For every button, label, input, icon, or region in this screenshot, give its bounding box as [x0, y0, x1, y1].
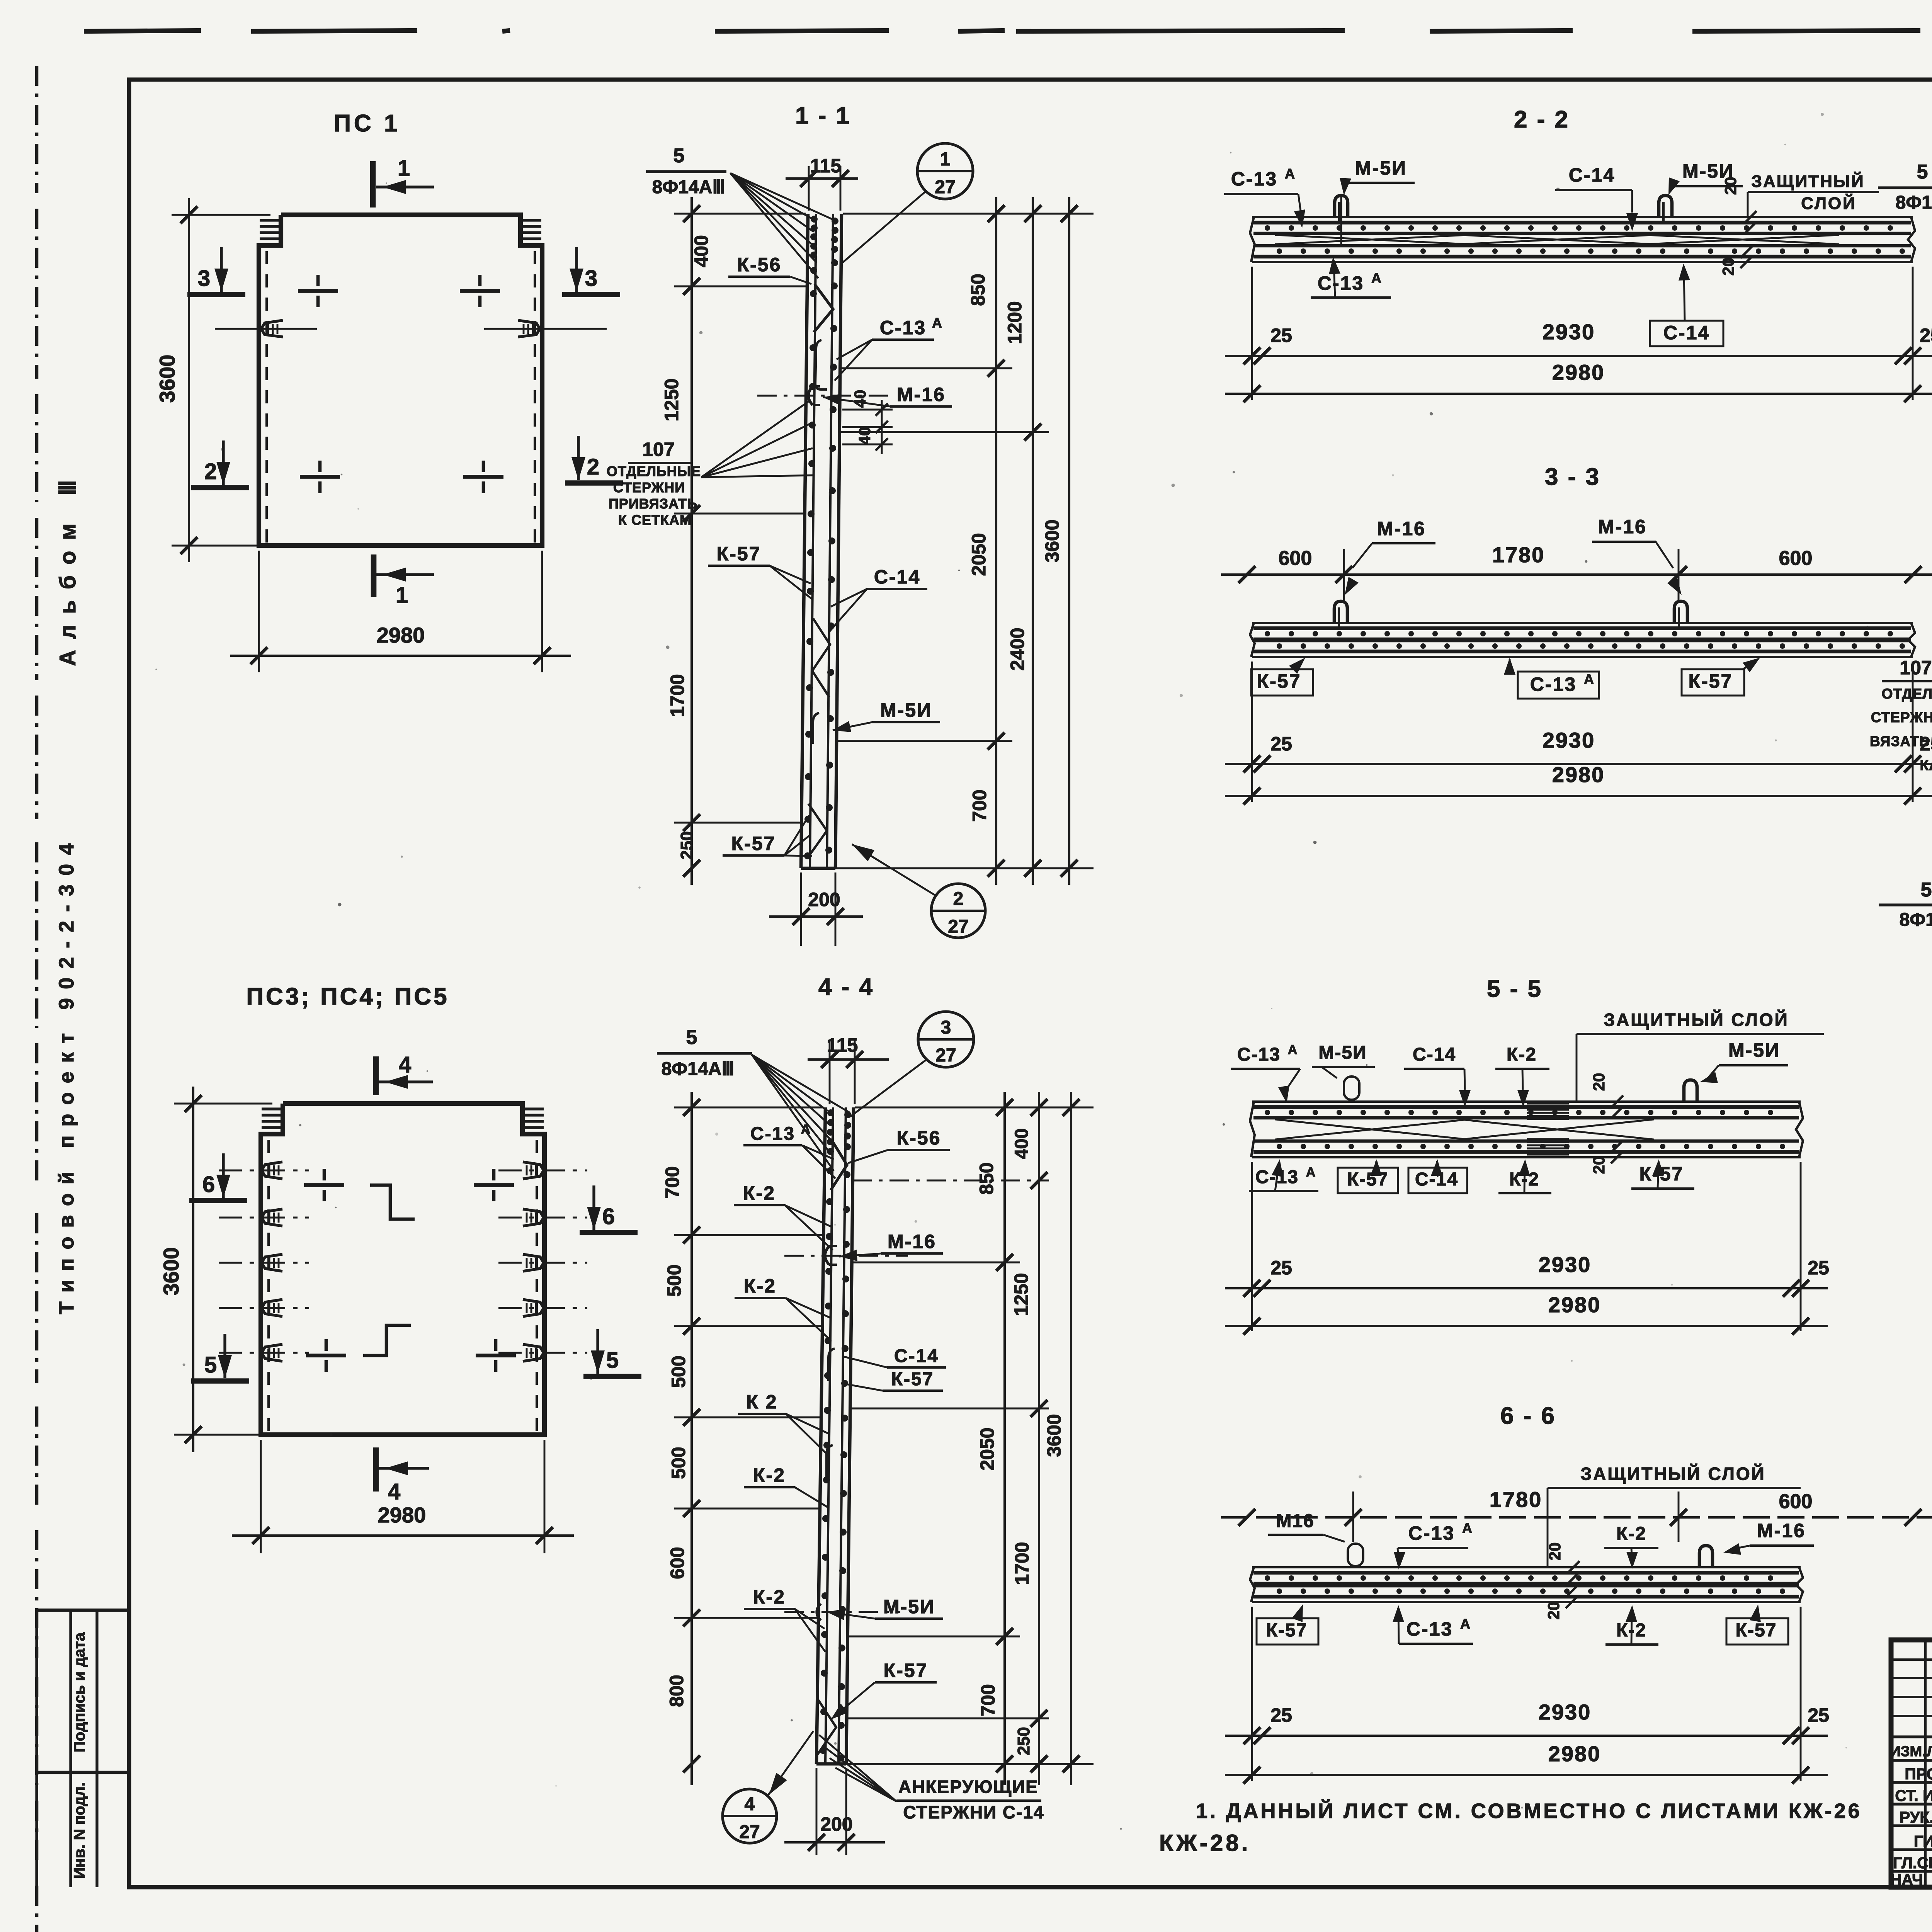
strip panel outline [1252, 216, 1913, 218]
svg-text:600: 600 [667, 1547, 688, 1579]
svg-text:250: 250 [677, 831, 696, 859]
svg-text:ГИП: ГИП [1914, 1832, 1932, 1850]
svg-text:600: 600 [1279, 547, 1312, 570]
strip right end break [1908, 217, 1915, 262]
plan PS3 section mark 4 bottom [373, 1447, 379, 1492]
svg-text:2: 2 [953, 889, 964, 909]
svg-text:600: 600 [1779, 1490, 1813, 1513]
lifting loop [1335, 196, 1348, 217]
title block personnel grid main rows [1891, 1735, 1932, 1738]
strip right end break [1908, 623, 1915, 657]
svg-text:500: 500 [668, 1355, 689, 1388]
svg-text:3: 3 [585, 266, 597, 291]
svg-text:6: 6 [202, 1172, 215, 1197]
svg-text:40: 40 [855, 427, 874, 445]
svg-text:400: 400 [690, 235, 712, 267]
plan PS1 cross marks [298, 289, 338, 293]
section 2-2 dims 25 2930 25 [1251, 267, 1253, 400]
svg-text:М-16: М-16 [888, 1231, 936, 1252]
section 4-4 K-56 truss top [831, 1140, 847, 1190]
strip rebar dots [1265, 1110, 1270, 1115]
svg-text:5: 5 [1921, 879, 1932, 901]
svg-text:С-14: С-14 [1569, 164, 1615, 186]
section 1-1 right dim chain 850 2050 700 [995, 197, 997, 885]
section 4-4 dim 115 [829, 1039, 831, 1104]
plan PS1 outline with corner notches [259, 215, 542, 546]
svg-text:К 2: К 2 [746, 1391, 777, 1413]
svg-text:2050: 2050 [968, 533, 990, 576]
plan PS1 dim 3600 [172, 214, 270, 216]
svg-text:ЗАЩИТНЫЙ: ЗАЩИТНЫЙ [1751, 171, 1864, 191]
svg-text:ПРОВ.: ПРОВ. [1905, 1765, 1932, 1783]
svg-text:М-5И: М-5И [1355, 157, 1407, 179]
svg-text:27: 27 [935, 177, 955, 197]
strip left end [1250, 623, 1255, 657]
svg-text:СТЕРЖНИ С-14: СТЕРЖНИ С-14 [903, 1802, 1044, 1822]
svg-text:25: 25 [1270, 733, 1292, 755]
strip left end [1250, 1102, 1255, 1157]
svg-text:2980: 2980 [1552, 762, 1605, 787]
section 3-3 top dims 600 1780 600 [1343, 549, 1345, 603]
section 4-4 body faces [816, 1107, 825, 1764]
svg-text:А: А [1288, 1043, 1298, 1057]
section 1-1 K-56 truss top [814, 284, 833, 332]
section 5-5 dims 25 2930 25 [1251, 1162, 1253, 1331]
svg-text:1: 1 [940, 149, 951, 170]
svg-text:25: 25 [1808, 1704, 1829, 1726]
svg-text:4: 4 [745, 1794, 755, 1815]
title block personnel grid columns [1924, 1640, 1927, 1887]
svg-text:2: 2 [204, 459, 217, 484]
section 1-1 left dim chain 400 1250 1700 250 [674, 213, 806, 215]
svg-text:3: 3 [198, 266, 210, 291]
svg-text:ПС 1: ПС 1 [333, 110, 400, 137]
section 1-1 right dim 3600 [1068, 197, 1070, 885]
svg-text:5: 5 [686, 1026, 697, 1049]
svg-text:25: 25 [1270, 325, 1292, 346]
svg-text:С-14: С-14 [894, 1346, 939, 1366]
svg-text:1. ДАННЫЙ ЛИСТ СМ. СОВМЕСТН: 1. ДАННЫЙ ЛИСТ СМ. СОВМЕСТНО С ЛИСТАМИ К… [1196, 1799, 1862, 1823]
section 1-1 detail circle 1-27 [917, 143, 973, 199]
section 4-4 detail circle 4-27 [723, 1789, 777, 1843]
svg-text:А л ь б о м Ⅲ: А л ь б о м Ⅲ [55, 478, 80, 666]
svg-text:1700: 1700 [1011, 1542, 1033, 1585]
svg-text:1: 1 [396, 583, 408, 608]
svg-text:М-16: М-16 [1377, 518, 1426, 539]
section 6-6 M16 side loop [1348, 1544, 1363, 1566]
svg-text:1780: 1780 [1492, 543, 1545, 567]
section 1-1 rebar dots right face [832, 218, 838, 224]
section 5-5 loop [1684, 1080, 1697, 1102]
svg-text:27: 27 [739, 1822, 760, 1842]
svg-text:М16: М16 [1276, 1511, 1314, 1531]
plan PS3 step line upper [370, 1185, 415, 1219]
svg-text:АНКЕРУЮЩИЕ: АНКЕРУЮЩИЕ [898, 1777, 1038, 1797]
plan PS1 edge wedge right [518, 320, 540, 337]
section 1-1 bottom dim 200 [800, 872, 802, 946]
section 2-2 dim 2980 [1225, 393, 1932, 395]
svg-text:М-5И: М-5И [1728, 1039, 1780, 1061]
svg-text:8Ф14АⅢ: 8Ф14АⅢ [1896, 192, 1932, 213]
svg-text:1780: 1780 [1490, 1487, 1543, 1512]
svg-text:115: 115 [810, 155, 842, 177]
svg-text:К-2: К-2 [1616, 1524, 1646, 1544]
svg-text:ГЛ.СПЕЦ.: ГЛ.СПЕЦ. [1893, 1854, 1932, 1872]
svg-text:А: А [1460, 1616, 1470, 1632]
svg-text:27: 27 [935, 1045, 956, 1066]
svg-text:ИЗМ.: ИЗМ. [1890, 1743, 1926, 1760]
svg-text:К-57: К-57 [731, 833, 776, 854]
svg-text:1 - 1: 1 - 1 [795, 102, 851, 129]
svg-text:3600: 3600 [159, 1247, 183, 1296]
section 1-1 M-16 loop [808, 386, 813, 405]
svg-text:2980: 2980 [1548, 1742, 1601, 1766]
svg-text:К-57: К-57 [1266, 1620, 1308, 1641]
svg-text:1: 1 [398, 156, 410, 181]
section 1-1 M-5I hook lower [813, 713, 819, 744]
strip lattice diagonals [1275, 1119, 1468, 1139]
section 4-4 rebar dots left face [827, 1109, 834, 1116]
plan PS1 edge wedge left [261, 320, 283, 337]
svg-text:8Ф14АⅢ: 8Ф14АⅢ [1900, 910, 1932, 930]
svg-text:ОТДЕЛЬНЫЕ: ОТДЕЛЬНЫЕ [1882, 686, 1932, 702]
svg-text:4 - 4: 4 - 4 [818, 974, 874, 1000]
section 1-1 detail circle 2-27 [931, 884, 985, 938]
svg-text:2400: 2400 [1007, 628, 1028, 670]
svg-text:К-57: К-57 [1736, 1620, 1777, 1641]
svg-text:СТЕРЖНИ ПРИ-: СТЕРЖНИ ПРИ- [1871, 709, 1932, 725]
strip panel outline [1252, 622, 1913, 624]
svg-text:2980: 2980 [377, 623, 425, 647]
section 4-4 rebar dots right face [844, 1111, 851, 1118]
svg-text:850: 850 [967, 274, 989, 306]
svg-text:А: А [1306, 1165, 1316, 1180]
svg-text:3 - 3: 3 - 3 [1545, 464, 1600, 490]
svg-text:850: 850 [976, 1162, 997, 1194]
section 4-4 bottom dim 200 [816, 1768, 818, 1855]
section 1-1 mid axis line [757, 395, 889, 397]
svg-text:700: 700 [977, 1684, 999, 1716]
section 3-3 dim 2980 [1225, 795, 1932, 797]
svg-text:800: 800 [666, 1675, 687, 1707]
section 4-4 detail circle 3-27 [918, 1012, 974, 1067]
section 1-1 dim 115 [808, 166, 810, 211]
section 1-1 rebar dots left face [811, 216, 818, 223]
svg-text:500: 500 [663, 1264, 685, 1296]
svg-text:С-13: С-13 [1318, 272, 1364, 294]
svg-text:25: 25 [1270, 1257, 1292, 1279]
svg-text:2980: 2980 [1548, 1293, 1601, 1317]
svg-text:РУК. ГР.: РУК. ГР. [1900, 1808, 1932, 1826]
svg-text:М-5И: М-5И [880, 699, 932, 721]
svg-text:3600: 3600 [155, 355, 179, 403]
svg-text:К-57: К-57 [1347, 1169, 1389, 1190]
sidebar bottom table [37, 1609, 129, 1612]
svg-text:25: 25 [1920, 325, 1932, 346]
section 6-6 top dims 1780 600 [1352, 1492, 1354, 1542]
svg-text:700: 700 [662, 1166, 683, 1198]
svg-text:С-14: С-14 [1413, 1044, 1456, 1065]
svg-text:К-2: К-2 [743, 1182, 776, 1204]
svg-text:20: 20 [1590, 1073, 1608, 1091]
lifting loop [1674, 601, 1687, 623]
svg-text:20: 20 [1546, 1543, 1564, 1561]
plan PS3 step line lower [363, 1325, 411, 1355]
plan PS1 corner hatch right [521, 219, 541, 221]
svg-text:К-57: К-57 [1257, 670, 1301, 692]
scan speckles [1784, 144, 1786, 146]
section 5-5 M-5I side loop [1344, 1077, 1359, 1100]
svg-text:С-13: С-13 [1530, 673, 1577, 695]
svg-text:А: А [1371, 270, 1381, 286]
plan PS1 section mark 1 top [370, 161, 376, 207]
svg-text:К-56: К-56 [737, 254, 782, 276]
sheet edge dash top [84, 31, 201, 31]
title block personnel grid empty rows [1891, 1658, 1932, 1661]
svg-text:Т и п о в о й п р о е к т: Т и п о в о й п р о е к т 9 0 2 - 2 - 3 … [55, 842, 78, 1315]
svg-text:ОТДЕЛЬНЫЕ: ОТДЕЛЬНЫЕ [607, 463, 701, 479]
svg-text:К-2: К-2 [744, 1275, 776, 1297]
svg-text:8Ф14АⅢ: 8Ф14АⅢ [662, 1059, 735, 1079]
svg-text:3600: 3600 [1041, 519, 1063, 562]
section 6-6 dim 2980 [1225, 1774, 1828, 1776]
plan PS3 corner hatch left [262, 1107, 282, 1110]
plan PS3 inner dashed edges [267, 1140, 270, 1433]
svg-text:М-5И: М-5И [1318, 1043, 1367, 1063]
strip left end [1250, 217, 1255, 262]
plan PS3 cross marks upper [304, 1183, 344, 1187]
svg-text:2: 2 [587, 454, 599, 480]
svg-text:К-57: К-57 [884, 1660, 928, 1681]
svg-text:А: А [1584, 671, 1594, 687]
svg-text:С-14: С-14 [874, 566, 920, 588]
section 4-4 K-57 bottom truss [818, 1700, 836, 1754]
svg-text:1700: 1700 [667, 674, 688, 717]
svg-text:115: 115 [827, 1034, 858, 1056]
svg-text:200: 200 [820, 1813, 852, 1835]
strip left end [1250, 1567, 1255, 1602]
plan PS1 corner hatch left [260, 219, 280, 221]
svg-text:А: А [1462, 1520, 1472, 1536]
section 4-4 right extensions [855, 1107, 1094, 1109]
plan PS3 corner hatch right [523, 1107, 544, 1110]
lifting loop [1659, 196, 1672, 217]
svg-text:К-57: К-57 [717, 543, 761, 565]
svg-text:5: 5 [1917, 161, 1928, 183]
section 1-1 right dim chain 1200 2400 [1032, 197, 1034, 885]
strip lattice diagonals [1275, 639, 1468, 641]
section 1-1 bar fan lines [730, 173, 811, 218]
section 1-1 right extension lines [843, 213, 1094, 215]
strip rebar dots [1265, 631, 1270, 636]
strip lattice diagonals [1275, 235, 1468, 244]
svg-text:Подпись и дата: Подпись и дата [71, 1632, 88, 1752]
svg-text:250: 250 [1014, 1727, 1033, 1755]
svg-text:ЗАЩИТНЫЙ СЛОЙ: ЗАЩИТНЫЙ СЛОЙ [1580, 1464, 1765, 1484]
svg-text:20: 20 [1719, 258, 1737, 276]
sheet edge dash-dot left [35, 66, 39, 193]
svg-text:А: А [1285, 166, 1295, 182]
svg-text:2930: 2930 [1539, 1252, 1592, 1277]
svg-text:С-14: С-14 [1663, 322, 1710, 344]
section 4-4 right dim 3600 [1070, 1092, 1072, 1785]
svg-text:НАЧ. ОТД.: НАЧ. ОТД. [1890, 1871, 1932, 1888]
svg-text:К-56: К-56 [897, 1127, 941, 1149]
svg-text:107: 107 [1900, 657, 1932, 679]
section 4-4 left dim chain [674, 1107, 823, 1109]
svg-text:600: 600 [1779, 547, 1813, 570]
svg-text:5: 5 [673, 145, 685, 167]
svg-text:СЛОЙ: СЛОЙ [1801, 193, 1856, 213]
section 4-4 right dim chain 850 2050 700 [1003, 1092, 1006, 1785]
title block outer frame [1891, 1640, 1932, 1887]
svg-text:ВЯЗАТЬ К СЕТ-: ВЯЗАТЬ К СЕТ- [1870, 733, 1932, 749]
svg-text:400: 400 [1012, 1128, 1032, 1159]
section 5-5 dim 2980 [1225, 1325, 1828, 1327]
plan PS1 section mark 1 bottom [371, 554, 377, 597]
svg-text:5: 5 [204, 1352, 217, 1378]
svg-text:М-5И: М-5И [883, 1596, 935, 1617]
lifting loop [1334, 601, 1347, 623]
svg-text:2 - 2: 2 - 2 [1514, 106, 1570, 133]
svg-text:К-2: К-2 [753, 1586, 786, 1608]
plan PS3 section mark 4 top [373, 1056, 379, 1095]
svg-text:А: А [801, 1122, 811, 1137]
strip rebar dots [1265, 225, 1270, 231]
svg-text:2930: 2930 [1543, 728, 1595, 752]
svg-text:1200: 1200 [1004, 301, 1026, 344]
svg-text:200: 200 [808, 889, 840, 910]
svg-text:А: А [932, 315, 942, 331]
svg-text:1250: 1250 [1010, 1273, 1032, 1316]
section 4-4 M-5I loop lower [817, 1604, 821, 1621]
strip panel outline [1252, 1566, 1801, 1568]
svg-text:2930: 2930 [1543, 320, 1595, 344]
svg-text:С-13: С-13 [750, 1124, 795, 1144]
svg-text:К-2: К-2 [753, 1464, 786, 1486]
svg-text:27: 27 [948, 917, 968, 937]
svg-text:25: 25 [1270, 1704, 1292, 1726]
section 1-1 K-57 bottom truss [808, 804, 827, 858]
svg-text:М-16: М-16 [1757, 1520, 1806, 1541]
section 5-5 lap hatches [1527, 1103, 1569, 1105]
svg-text:3: 3 [941, 1017, 951, 1038]
svg-text:107: 107 [642, 439, 674, 460]
section 1-1 40 40 mini dims [842, 409, 893, 411]
svg-text:5 - 5: 5 - 5 [1487, 976, 1543, 1002]
svg-text:С-13: С-13 [1237, 1044, 1281, 1065]
svg-text:СТ. ИНЖ.: СТ. ИНЖ. [1895, 1787, 1932, 1804]
plan PS3 cross marks lower [306, 1354, 346, 1357]
svg-text:КЖ-28.: КЖ-28. [1159, 1830, 1250, 1856]
plan PS3 outline with corner notches [261, 1104, 544, 1435]
svg-text:С-13: С-13 [1406, 1618, 1453, 1640]
svg-text:К-57: К-57 [1689, 670, 1733, 692]
section 6-6 dims 25 2930 25 [1251, 1607, 1253, 1781]
plan PS1 inner dashed edges [265, 251, 268, 544]
section 4-4 right dim chain 400 1250 1700 250 [1038, 1092, 1040, 1785]
svg-text:500: 500 [668, 1447, 689, 1479]
svg-text:К-57: К-57 [891, 1369, 934, 1389]
svg-text:ЛИСТ: ЛИСТ [1927, 1743, 1932, 1760]
svg-text:СТЕРЖНИ: СТЕРЖНИ [613, 480, 685, 495]
svg-text:2980: 2980 [1552, 360, 1605, 384]
svg-text:ЗАЩИТНЫЙ СЛОЙ: ЗАЩИТНЫЙ СЛОЙ [1604, 1010, 1789, 1030]
svg-text:ПС3; ПС4; ПС5: ПС3; ПС4; ПС5 [246, 983, 449, 1010]
svg-text:40: 40 [851, 390, 869, 408]
svg-text:2930: 2930 [1539, 1700, 1592, 1724]
strip right end break [1796, 1102, 1803, 1157]
svg-text:700: 700 [969, 789, 990, 821]
svg-text:2050: 2050 [976, 1427, 998, 1470]
strip lattice diagonals [1275, 1584, 1468, 1585]
section 4-4 M-16 loop [825, 1246, 829, 1265]
svg-text:2980: 2980 [378, 1503, 426, 1527]
svg-text:5: 5 [606, 1348, 619, 1373]
strip panel outline [1252, 1100, 1801, 1103]
svg-text:6 - 6: 6 - 6 [1500, 1403, 1556, 1429]
section 4-4 bar fan lines [752, 1055, 828, 1111]
plan PS3 dim 2980 [260, 1440, 262, 1553]
plan PS3 dim 3600 [174, 1103, 272, 1105]
svg-text:С-13: С-13 [1231, 168, 1277, 190]
section 4-4 hooks mid [828, 1349, 835, 1381]
section 2-2 loop extension a [1340, 195, 1342, 247]
strip right end break [1796, 1567, 1803, 1602]
svg-text:20: 20 [1590, 1156, 1608, 1174]
section 1-1 K-57 truss mid [812, 618, 830, 697]
svg-text:М-16: М-16 [1598, 516, 1647, 537]
svg-text:20: 20 [1544, 1602, 1563, 1620]
section 1-1 body faces [801, 214, 808, 868]
svg-text:4: 4 [388, 1479, 400, 1504]
svg-text:Инв. N подл.: Инв. N подл. [71, 1782, 88, 1879]
svg-text:С-13: С-13 [1408, 1522, 1455, 1544]
svg-text:20: 20 [1721, 177, 1740, 195]
svg-text:25: 25 [1808, 1257, 1829, 1279]
svg-text:С-13: С-13 [880, 317, 926, 338]
svg-text:1250: 1250 [661, 378, 682, 421]
svg-text:6: 6 [602, 1204, 615, 1229]
svg-text:8Ф14АⅢ: 8Ф14АⅢ [652, 177, 725, 197]
svg-text:3600: 3600 [1043, 1414, 1065, 1457]
svg-text:К-2: К-2 [1507, 1044, 1537, 1065]
plan PS1 dim 2980 [258, 551, 260, 672]
strip rebar dots [1265, 1575, 1270, 1581]
svg-text:ПРИВЯЗАТЬ: ПРИВЯЗАТЬ [609, 496, 697, 512]
svg-text:КАМ: КАМ [1920, 757, 1932, 773]
section 3-3 dims 25 2930 25 [1251, 662, 1253, 802]
section 6-6 loop [1699, 1546, 1713, 1567]
plan PS3 wedges and axes [262, 1162, 282, 1179]
svg-text:М-16: М-16 [897, 384, 946, 405]
svg-text:4: 4 [399, 1052, 411, 1077]
section 1-1 C-13A hook bar [815, 340, 827, 389]
